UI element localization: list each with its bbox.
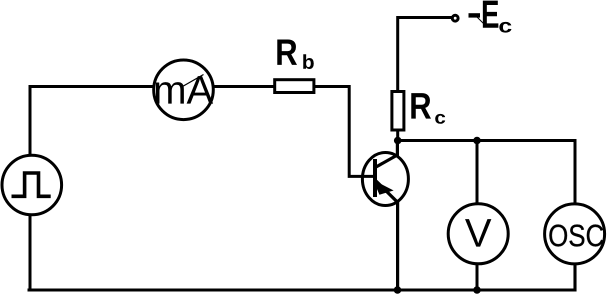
node collector junction [394,137,402,145]
wire collector bus to V and OSC [398,141,575,204]
label Rb [277,39,297,64]
wire V top branch [476,141,479,204]
oscilloscope OSC [545,204,605,264]
label V [465,219,491,247]
collector lead [376,141,397,168]
transistor Q1 (PNP) [362,141,408,291]
label OSC [549,225,603,247]
node V top junction [473,137,481,145]
wire pulse-bottom to ground rail [29,214,32,290]
meter needle [183,75,204,87]
pulse generator G1 [2,155,62,215]
wire mA to Rb [214,85,275,88]
wire V bottom branch [476,264,479,291]
emitter lead and wire down [376,181,398,290]
voltmeter V [448,204,508,264]
wire -Ec terminal to Rc top [398,18,452,92]
wire Rb to transistor base [315,87,375,177]
node emitter-ground junction [394,286,402,294]
wire bottom ground rail [28,264,576,291]
wire Rc bottom to collector node [396,130,399,141]
label Rc [411,93,431,118]
resistor Rb [275,39,314,92]
base bar [373,159,377,197]
resistor Rc [392,92,445,131]
label mA [156,76,213,104]
wire pulse-top to mA [30,87,154,156]
terminal -Ec [452,1,511,33]
label -Ec [469,13,481,17]
milliammeter mA [154,60,214,120]
node V-ground junction [473,286,481,294]
emitter arrow [375,182,392,194]
pulse waveform symbol [12,173,51,196]
